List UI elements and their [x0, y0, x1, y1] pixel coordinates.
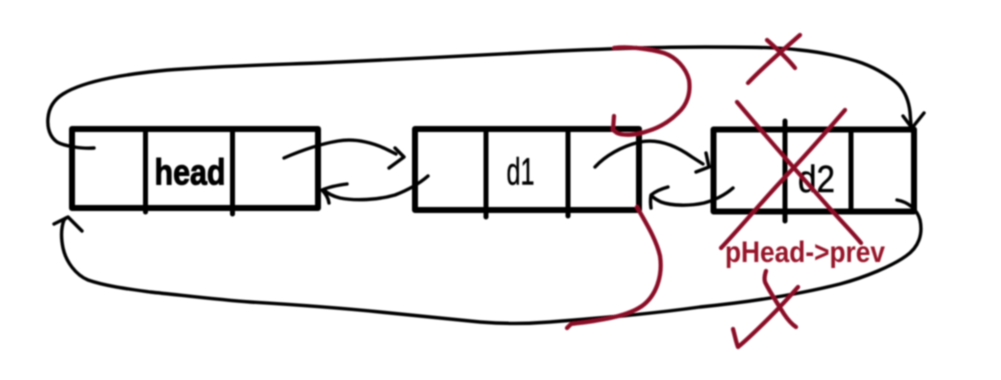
wire top loop head to d2: [48, 47, 911, 148]
node d1 box: [415, 129, 639, 217]
red cross on top wire stroke 2: [748, 35, 800, 83]
wire back arrow d1 to head: [324, 176, 428, 200]
arrowhead back d1 to head: [322, 184, 347, 203]
svg-text:d1: d1: [507, 152, 535, 194]
red big X over d2 stroke 2: [721, 110, 845, 248]
arrowhead bottom loop into head: [54, 217, 82, 231]
node head box: [72, 129, 318, 214]
arrowhead forward head to d1: [389, 148, 404, 168]
arrowhead back d2 to d1: [651, 187, 669, 208]
red small cross below stroke 1: [765, 271, 797, 327]
wire forward arrow d1 to d2: [595, 141, 703, 167]
red pen squiggle upper tick: [613, 116, 614, 130]
red cross on top wire: [767, 40, 795, 68]
svg-text:pHead->prev: pHead->prev: [725, 236, 885, 269]
wire back arrow d2 to d1: [653, 188, 733, 205]
red big X over d2 stroke 1: [737, 102, 861, 243]
svg-text:head: head: [155, 152, 226, 193]
wire forward arrow head to d1: [284, 140, 396, 158]
wire bottom loop d2 to head: [62, 200, 921, 324]
red pen new prev pointer squiggle upper: [613, 47, 690, 134]
node d2 box: [714, 121, 915, 221]
arrowhead top loop into d2: [903, 113, 924, 128]
arrowhead forward d1 to d2: [696, 153, 709, 172]
red small cross below stroke 2 with check: [733, 287, 798, 347]
red pen squiggle lower arc: [567, 207, 661, 328]
